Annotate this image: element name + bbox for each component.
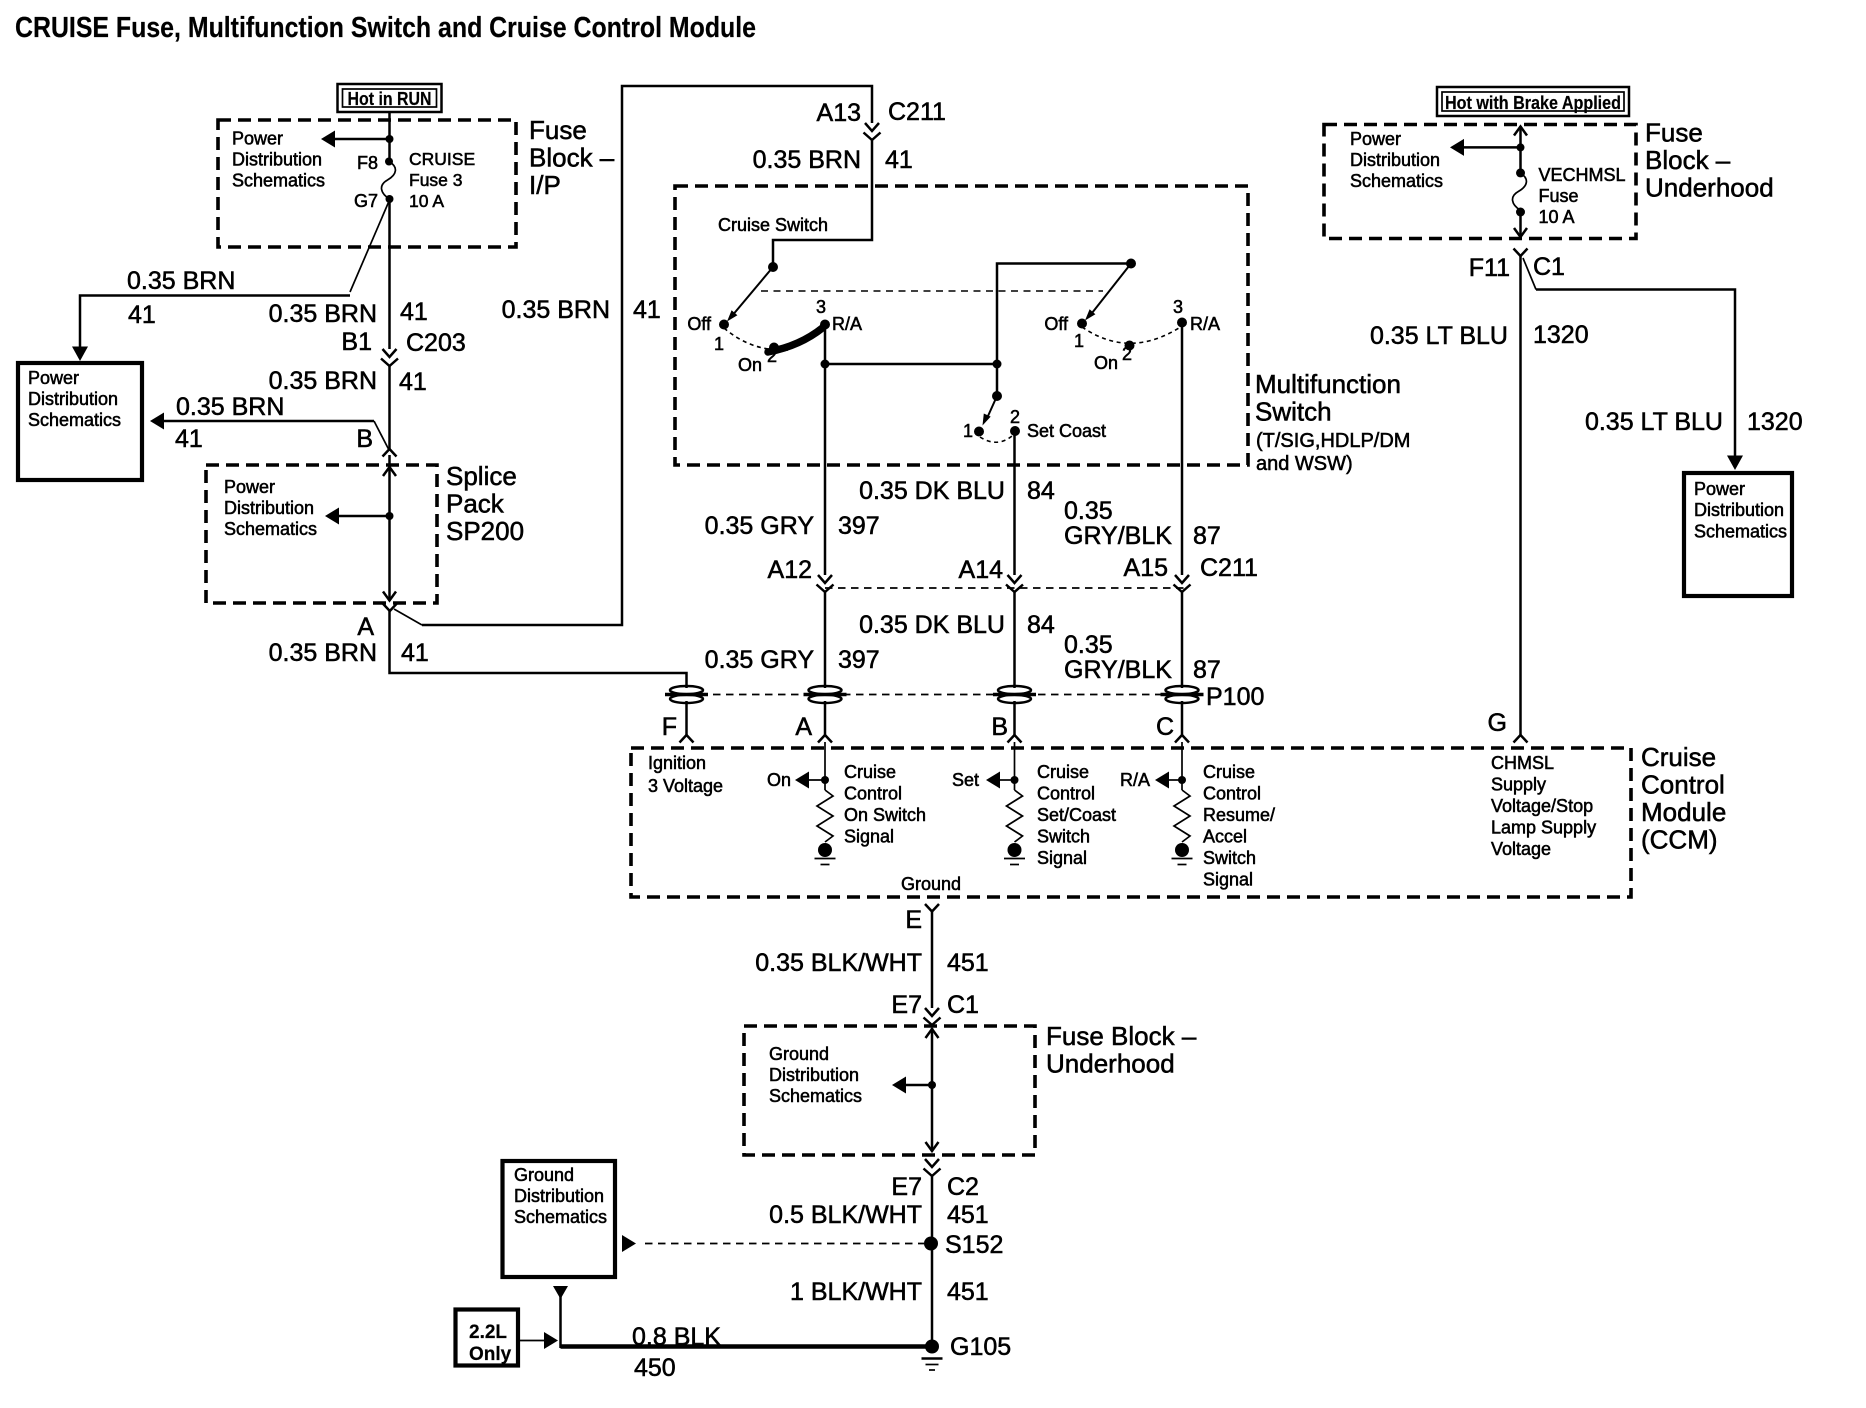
svg-text:41: 41 (400, 298, 428, 326)
svg-text:451: 451 (947, 1278, 989, 1306)
pin label Cruise Control Set/Coast Switch Signal (1037, 762, 1116, 868)
Fuse Block - Underhood dashed box (bottom) (744, 1026, 1035, 1155)
wire label 0.35 GRY/BLK | 87 (lower) (1064, 631, 1221, 684)
svg-text:Distribution: Distribution (224, 498, 314, 518)
svg-text:I/P: I/P (529, 170, 561, 200)
pin G7 (354, 191, 394, 211)
svg-text:Off: Off (687, 314, 712, 334)
connector C2 pin E7 (891, 1159, 979, 1201)
svg-text:0.35 BRN: 0.35 BRN (753, 146, 861, 174)
wire hot feed with arrow up (1514, 126, 1527, 173)
wire from Hot in RUN down to fuse F8 (388, 112, 391, 162)
wire 0.35 BRN 41 to Power Distribution Schematics (72, 296, 350, 362)
Splice Pack SP200 dashed box (206, 465, 437, 603)
wire label 0.35 BRN / 41 (second) (175, 393, 284, 453)
Cruise Control Module dashed box (631, 748, 1631, 897)
svg-text:Cruise: Cruise (1037, 762, 1089, 782)
svg-text:Fuse: Fuse (1539, 186, 1579, 206)
svg-text:1320: 1320 (1747, 408, 1803, 436)
wire A15 to P100 (1181, 592, 1184, 688)
terminal A (795, 713, 832, 743)
label Fuse Block - Underhood (bottom) (1046, 1021, 1197, 1079)
wire label 0.35 BRN | 41 (below C203) (269, 367, 427, 396)
svg-text:41: 41 (401, 639, 429, 667)
svg-text:Only: Only (469, 1344, 512, 1365)
reference box Power Distribution Schematics (left) (18, 363, 142, 480)
connector C1 pin E7 (891, 991, 979, 1025)
svg-text:0.35: 0.35 (1064, 631, 1113, 659)
svg-text:R/A: R/A (1190, 314, 1220, 334)
svg-text:Power: Power (224, 477, 275, 497)
junction dot (993, 360, 1002, 369)
wire label 0.35 DK BLU | 84 (lower) (859, 611, 1055, 639)
cruise switch pivot (768, 262, 778, 272)
contact 2 Set Coast (1010, 407, 1106, 441)
svg-text:C1: C1 (947, 991, 979, 1019)
wire label 0.8 BLK / 450 (632, 1323, 721, 1382)
svg-text:3: 3 (816, 297, 826, 317)
svg-text:E7: E7 (891, 991, 922, 1019)
reference text Power Distribution Schematics (underhood box) (1350, 129, 1443, 191)
svg-text:Cruise: Cruise (1641, 742, 1716, 772)
connector C211 pin A15 (1124, 554, 1258, 592)
svg-text:Control: Control (1203, 784, 1261, 804)
svg-text:451: 451 (947, 1201, 989, 1229)
svg-text:Voltage/Stop: Voltage/Stop (1491, 796, 1593, 816)
svg-text:1320: 1320 (1533, 321, 1589, 349)
wire label 0.35 LT BLU | 1320 (left) (1370, 321, 1589, 350)
svg-text:0.8 BLK: 0.8 BLK (632, 1323, 721, 1351)
svg-text:B1: B1 (341, 328, 372, 356)
svg-text:and WSW): and WSW) (1256, 453, 1353, 475)
wire label 0.35 BRN | 41 (node A) (269, 639, 429, 667)
wire diagonal tap from G7 to left branch (350, 200, 390, 292)
svg-text:Block –: Block – (529, 143, 615, 173)
svg-text:10 A: 10 A (409, 191, 444, 211)
wire label 0.35 BRN | 41 (riser) (502, 296, 661, 324)
contact 1 Off (cruise) (687, 314, 729, 354)
reference text Power Distribution Schematics (splice box) (224, 477, 317, 539)
svg-text:Hot with Brake Applied: Hot with Brake Applied (1445, 93, 1621, 113)
svg-text:2: 2 (1010, 407, 1020, 427)
svg-text:G105: G105 (950, 1333, 1011, 1361)
svg-text:E: E (905, 906, 922, 934)
svg-text:2.2L: 2.2L (469, 1322, 507, 1343)
svg-text:41: 41 (175, 425, 203, 453)
svg-text:1 BLK/WHT: 1 BLK/WHT (790, 1278, 922, 1306)
flag box "Hot with Brake Applied" (1437, 87, 1629, 116)
svg-text:10 A: 10 A (1539, 207, 1575, 227)
svg-text:Distribution: Distribution (28, 389, 118, 409)
wire stub to Ground Distribution Schematics box (553, 1286, 568, 1348)
svg-text:0.35 DK BLU: 0.35 DK BLU (859, 611, 1005, 639)
label Multifunction Switch (1255, 369, 1410, 475)
svg-text:Voltage: Voltage (1491, 839, 1551, 859)
grommet (C wire) (1161, 686, 1204, 703)
svg-text:Lamp Supply: Lamp Supply (1491, 818, 1596, 838)
svg-text:GRY/BLK: GRY/BLK (1064, 522, 1172, 550)
svg-text:CHMSL: CHMSL (1491, 753, 1554, 773)
fuse CRUISE Fuse 3 10 A (382, 162, 396, 200)
svg-text:0.35 BRN: 0.35 BRN (176, 393, 284, 421)
contact 2 On (resume) (1094, 341, 1135, 374)
wire branch to Power Distribution Schematics (right) (1523, 258, 1743, 470)
svg-text:0.35 GRY: 0.35 GRY (705, 646, 815, 674)
node A of splice pack (357, 604, 396, 642)
svg-text:Schematics: Schematics (1350, 171, 1443, 191)
svg-text:0.35 BRN: 0.35 BRN (127, 267, 235, 295)
wire label 1 BLK/WHT | 451 (790, 1278, 989, 1306)
svg-text:0.35 BRN: 0.35 BRN (269, 367, 377, 395)
reference text Power Distribution Schematics (I/P box) (232, 129, 325, 191)
svg-text:Cruise Switch: Cruise Switch (718, 215, 828, 235)
svg-text:Switch: Switch (1037, 827, 1090, 847)
wire C203 to B (388, 366, 391, 449)
svg-text:A13: A13 (817, 99, 861, 127)
wire F11 down to terminal G (1519, 256, 1522, 735)
svg-text:Distribution: Distribution (769, 1065, 859, 1085)
pin label Ignition 3 Voltage (648, 753, 723, 796)
svg-text:41: 41 (128, 301, 156, 329)
svg-text:Supply: Supply (1491, 775, 1546, 795)
svg-text:C: C (1156, 713, 1174, 741)
wire A13 into cruise switch pivot (773, 140, 872, 267)
Resume/Accel internal circuit (1120, 742, 1193, 865)
svg-text:0.35 BLK/WHT: 0.35 BLK/WHT (755, 949, 922, 977)
label Fuse Block - Underhood (1645, 118, 1774, 203)
node B of splice pack (356, 425, 396, 457)
wire A down to ignition feed (390, 611, 687, 688)
connector C211 pin A14 (959, 556, 1023, 592)
terminal F (662, 713, 694, 743)
wire label 0.35 GRY | 397 (lower) (705, 646, 880, 674)
label Cruise Control Module (CCM) (1641, 742, 1726, 855)
wire through splice pack SP200 (383, 455, 396, 601)
svg-text:A15: A15 (1124, 554, 1168, 582)
svg-text:F11: F11 (1469, 254, 1510, 282)
reference box Power Distribution Schematics (right) (1684, 473, 1792, 596)
svg-text:Schematics: Schematics (769, 1086, 862, 1106)
svg-text:(T/SIG,HDLP/DM: (T/SIG,HDLP/DM (1256, 430, 1410, 452)
svg-text:G7: G7 (354, 191, 378, 211)
svg-text:Power: Power (1350, 129, 1401, 149)
contact 2 On (cruise) (738, 343, 779, 376)
svg-text:0.35 LT BLU: 0.35 LT BLU (1370, 322, 1508, 350)
arrow from 2.2L Only to ground wire (518, 1332, 558, 1349)
svg-text:Fuse Block –: Fuse Block – (1046, 1021, 1197, 1051)
svg-text:41: 41 (885, 146, 913, 174)
wiper contact strip On-R/A (768, 328, 823, 353)
svg-text:A: A (357, 613, 374, 641)
svg-text:VECHMSL: VECHMSL (1539, 165, 1626, 185)
svg-text:Power: Power (232, 129, 283, 149)
svg-text:3: 3 (1173, 297, 1183, 317)
wire 0.8 BLK 450 to G105 (561, 1344, 933, 1349)
wire label 0.35 BRN | 41 (A13) (753, 146, 913, 174)
wire E down (931, 912, 934, 1009)
wire R/A down (824, 325, 827, 576)
wire A12 to P100 (824, 592, 827, 688)
label Splice Pack SP200 (446, 461, 524, 546)
connector C211 pin A13 (817, 98, 946, 140)
contact 3 R/A (resume) (1173, 297, 1220, 334)
set/coast pivot (992, 391, 1002, 401)
svg-text:SP200: SP200 (446, 516, 524, 546)
svg-text:Cruise: Cruise (1203, 762, 1255, 782)
svg-text:397: 397 (838, 512, 880, 540)
grommet P100 dashed line (700, 694, 1200, 696)
svg-text:GRY/BLK: GRY/BLK (1064, 656, 1172, 684)
terminal G (1488, 709, 1528, 743)
wire label 0.35 BLK/WHT | 451 (755, 949, 988, 977)
resume switch pivot (1126, 259, 1136, 269)
flag box 2.2L Only (456, 1310, 519, 1366)
svg-text:0.35: 0.35 (1064, 497, 1113, 525)
junction dot (386, 135, 394, 143)
svg-text:Switch: Switch (1203, 848, 1256, 868)
svg-text:41: 41 (399, 368, 427, 396)
value label VECHMSL Fuse 10 A (1539, 165, 1626, 227)
wire to resume switch (825, 264, 1131, 365)
label Fuse Block - I/P (529, 115, 615, 200)
svg-text:2: 2 (767, 346, 777, 366)
contact arc (cruise switch) (724, 328, 788, 350)
svg-text:G: G (1488, 709, 1507, 737)
reference text Ground Distribution Schematics (fuse block) (769, 1044, 862, 1106)
svg-text:Signal: Signal (1037, 848, 1087, 868)
svg-text:Fuse: Fuse (1645, 118, 1703, 148)
svg-text:0.35 GRY: 0.35 GRY (705, 512, 815, 540)
wire R/A (resume) down (1181, 323, 1184, 576)
svg-text:Set Coast: Set Coast (1027, 421, 1106, 441)
svg-text:450: 450 (634, 1354, 676, 1382)
wire label 0.35 BRN | 41 (above C203) (269, 298, 428, 328)
svg-text:R/A: R/A (1120, 770, 1150, 790)
ground G105 (922, 1333, 1012, 1370)
svg-text:B: B (991, 713, 1008, 741)
pin F8 (357, 153, 393, 173)
svg-text:Power: Power (28, 368, 79, 388)
svg-text:Ground: Ground (514, 1165, 574, 1185)
svg-text:87: 87 (1193, 522, 1221, 550)
contact arc (set/coast) (980, 436, 1012, 442)
svg-text:Control: Control (1641, 770, 1725, 800)
connector C211 pin A12 (768, 556, 834, 592)
svg-text:Distribution: Distribution (514, 1186, 604, 1206)
junction dot (821, 360, 830, 369)
wire label 0.35 DK BLU | 84 (upper) (859, 477, 1055, 505)
wire A up to cruise switch feed (394, 86, 872, 625)
junction dot (928, 1081, 936, 1089)
contact 1 (set/coast) (963, 421, 984, 441)
svg-text:41: 41 (633, 296, 661, 324)
wire down to set/coast pivot (996, 364, 999, 396)
wire through fuse block with arrows (926, 1028, 939, 1152)
svg-text:Ground: Ground (901, 874, 961, 894)
arrow to Power Distribution Schematics (splice) (325, 508, 390, 525)
svg-text:451: 451 (947, 949, 989, 977)
svg-text:0.35 LT BLU: 0.35 LT BLU (1585, 408, 1723, 436)
svg-text:Block –: Block – (1645, 145, 1731, 175)
svg-text:1: 1 (1074, 331, 1084, 351)
svg-text:Control: Control (844, 784, 902, 804)
svg-text:87: 87 (1193, 656, 1221, 684)
connector C1 pin F11 (1469, 249, 1565, 283)
svg-text:F: F (662, 713, 677, 741)
svg-text:3 Voltage: 3 Voltage (648, 776, 723, 796)
svg-text:F8: F8 (357, 153, 378, 173)
svg-text:Control: Control (1037, 784, 1095, 804)
grommet (A wire) (804, 686, 847, 703)
terminal C (1156, 713, 1189, 743)
svg-text:Schematics: Schematics (224, 519, 317, 539)
svg-text:Splice: Splice (446, 461, 517, 491)
wire 0.35 BRN 41 arrow to Power Distribution Schematics (second) (150, 413, 389, 451)
svg-text:0.5 BLK/WHT: 0.5 BLK/WHT (769, 1201, 922, 1229)
cruise switch arm (727, 267, 773, 322)
svg-text:84: 84 (1027, 477, 1055, 505)
resume switch arm (1085, 264, 1131, 321)
wire E7 C2 down to G105 (931, 1176, 934, 1346)
svg-text:Set: Set (952, 770, 979, 790)
junction dot (1517, 143, 1525, 151)
wire label 0.35 LT BLU | 1320 (right) (1585, 408, 1803, 436)
svg-text:Underhood: Underhood (1645, 173, 1774, 203)
svg-text:Distribution: Distribution (232, 150, 322, 170)
svg-text:Off: Off (1044, 314, 1069, 334)
wire label 0.35 GRY/BLK | 87 (upper) (1064, 497, 1221, 550)
connector C211 dashed line (825, 587, 1186, 589)
svg-text:P100: P100 (1206, 683, 1264, 711)
svg-text:Schematics: Schematics (514, 1207, 607, 1227)
svg-text:C1: C1 (1533, 253, 1565, 281)
pin label Cruise Control On Switch Signal (844, 762, 926, 847)
wire grommet to terminal F (685, 701, 688, 735)
svg-text:397: 397 (838, 646, 880, 674)
fuse VECHMSL Fuse 10 A (1513, 168, 1527, 216)
svg-text:0.35 DK BLU: 0.35 DK BLU (859, 477, 1005, 505)
wire grommet to terminal C (1181, 701, 1184, 735)
flag box "Hot in RUN" (338, 84, 442, 112)
svg-text:Schematics: Schematics (28, 410, 121, 430)
contact arc (resume switch) (1082, 326, 1182, 343)
svg-text:A12: A12 (768, 556, 812, 584)
wire grommet to terminal B (1013, 701, 1016, 735)
svg-text:2: 2 (1122, 344, 1132, 364)
svg-text:E7: E7 (891, 1173, 922, 1201)
svg-text:Schematics: Schematics (232, 171, 325, 191)
svg-text:0.35 BRN: 0.35 BRN (269, 300, 377, 328)
svg-text:Module: Module (1641, 797, 1726, 827)
Multifunction Switch dashed box (675, 186, 1248, 465)
svg-text:Pack: Pack (446, 489, 505, 519)
svg-text:CRUISE: CRUISE (409, 149, 475, 169)
wire grommet to terminal A (824, 701, 827, 735)
terminal E ground (905, 904, 939, 934)
arrow to Ground Distribution Schematics (892, 1077, 932, 1094)
svg-text:Resume/: Resume/ (1203, 805, 1275, 825)
svg-text:Signal: Signal (844, 827, 894, 847)
connector C203 pin B1 (341, 328, 465, 366)
svg-text:C2: C2 (947, 1173, 979, 1201)
wire label 0.35 BRN / 41 (127, 267, 235, 329)
svg-text:1: 1 (963, 421, 973, 441)
Fuse Block - I/P dashed box (218, 120, 516, 247)
svg-text:CRUISE Fuse, Multifunction Swi: CRUISE Fuse, Multifunction Switch and Cr… (15, 12, 756, 44)
wire fuse G7 down to C203 (388, 199, 391, 349)
arrow to Power Distribution Schematics (underhood) (1450, 139, 1521, 156)
wire fuse down with arrow (1514, 212, 1527, 237)
Set/Coast internal circuit (952, 742, 1025, 865)
reference box Ground Distribution Schematics (left) (503, 1161, 616, 1277)
wire A14 to P100 (1013, 592, 1016, 688)
svg-text:Accel: Accel (1203, 827, 1247, 847)
svg-text:Distribution: Distribution (1350, 150, 1440, 170)
svg-text:On: On (767, 770, 791, 790)
wire label 0.5 BLK/WHT | 451 (769, 1201, 989, 1229)
svg-text:Power: Power (1694, 479, 1745, 499)
svg-text:On: On (1094, 353, 1118, 373)
svg-text:Hot in RUN: Hot in RUN (348, 89, 432, 109)
terminal B (991, 713, 1021, 743)
svg-text:Signal: Signal (1203, 870, 1253, 890)
grommet (F wire) (665, 686, 708, 703)
Fuse Block - Underhood dashed box (top right) (1324, 125, 1636, 239)
svg-text:Set/Coast: Set/Coast (1037, 805, 1116, 825)
svg-text:On Switch: On Switch (844, 805, 926, 825)
wire set/coast down (1013, 431, 1016, 575)
svg-text:1: 1 (714, 334, 724, 354)
svg-text:0.35 BRN: 0.35 BRN (269, 639, 377, 667)
value label CRUISE Fuse 3 10 A (409, 149, 475, 211)
svg-text:(CCM): (CCM) (1641, 825, 1718, 855)
svg-text:Fuse 3: Fuse 3 (409, 170, 463, 190)
On switch internal circuit (767, 742, 836, 865)
svg-text:Cruise: Cruise (844, 762, 896, 782)
svg-text:Underhood: Underhood (1046, 1049, 1175, 1079)
svg-text:B: B (356, 425, 373, 453)
mechanical link dashed (761, 290, 1103, 292)
junction dot SP200 (386, 512, 394, 520)
contact 3 R/A (cruise) (816, 297, 862, 334)
svg-text:C211: C211 (1200, 554, 1258, 582)
pin label Cruise Control Resume/ Accel Switch Signal (1203, 762, 1275, 890)
pin label CHMSL Supply Voltage/Stop Lamp Supply Voltage (1491, 753, 1596, 859)
svg-text:Distribution: Distribution (1694, 500, 1784, 520)
svg-text:On: On (738, 355, 762, 375)
svg-text:Ground: Ground (769, 1044, 829, 1064)
arrow to Power Distribution Schematics (321, 131, 390, 148)
svg-text:Switch: Switch (1255, 397, 1332, 427)
svg-text:0.35 BRN: 0.35 BRN (502, 296, 610, 324)
svg-text:A14: A14 (959, 556, 1004, 584)
svg-text:S152: S152 (945, 1231, 1003, 1259)
svg-text:R/A: R/A (832, 314, 862, 334)
svg-text:A: A (795, 713, 812, 741)
svg-text:C203: C203 (406, 329, 466, 357)
svg-text:Fuse: Fuse (529, 115, 587, 145)
svg-text:84: 84 (1027, 611, 1055, 639)
set/coast arm (983, 396, 998, 426)
svg-text:Schematics: Schematics (1694, 522, 1787, 542)
contact 1 Off (resume) (1044, 314, 1087, 351)
splice S152 (924, 1231, 1003, 1259)
wire label 0.35 GRY | 397 (upper) (705, 512, 880, 540)
svg-text:Ignition: Ignition (648, 753, 706, 773)
svg-text:C211: C211 (888, 98, 946, 126)
svg-text:Multifunction: Multifunction (1255, 369, 1401, 399)
grommet (B wire) (993, 686, 1036, 703)
